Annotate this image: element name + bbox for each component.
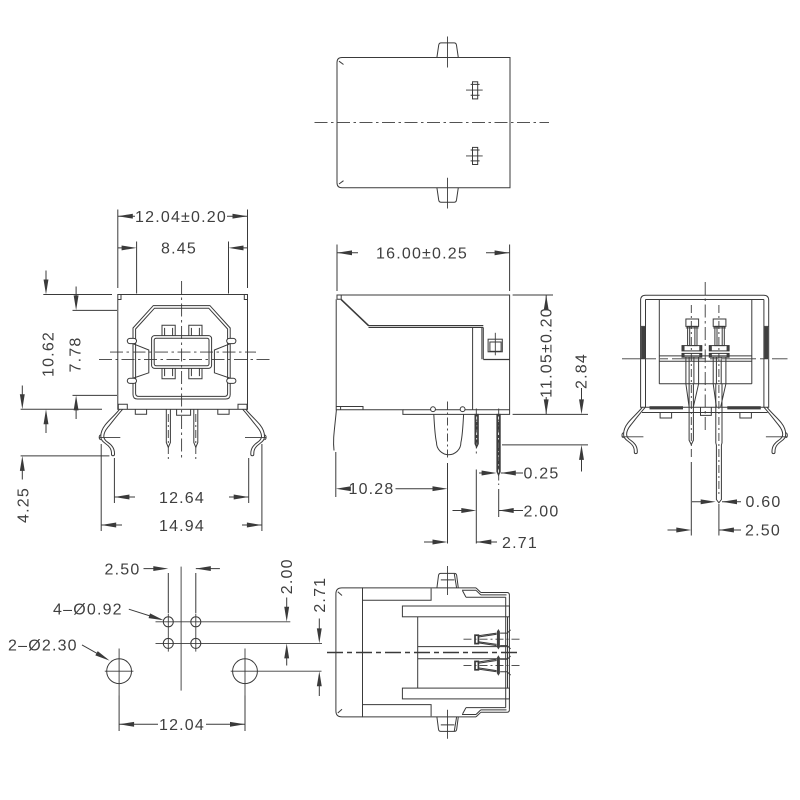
bottom flange top: [402, 606, 509, 617]
back pin A neck: [688, 326, 697, 345]
front pin 2: [194, 409, 198, 447]
dim 14.94 extension left: [100, 444, 102, 531]
dim 12.04 pcb line: [119, 723, 245, 725]
svg-text:7.78: 7.78: [68, 337, 85, 373]
svg-text:16.00±0.25: 16.00±0.25: [376, 245, 468, 262]
bottom band line bottom: [363, 705, 432, 717]
contact pad bottom-left: [162, 368, 175, 378]
side pin 1 centerline: [475, 409, 477, 457]
bottom pin 1 centerline: [464, 638, 521, 640]
dim 2.50 pcb line: [144, 568, 220, 570]
contact pad top-right: [189, 325, 202, 335]
dim 16.00±0.25 line: [337, 252, 510, 254]
dim 0.60 arrows: [692, 499, 741, 504]
bottom tab top centerline: [447, 566, 449, 595]
bottom pin 2 flare: [507, 656, 510, 675]
dim 8.45 arrows: [118, 245, 248, 250]
svg-text:12.04: 12.04: [159, 717, 205, 734]
back tongue line upper: [659, 355, 752, 357]
svg-text:4–Ø0.92: 4–Ø0.92: [53, 602, 123, 619]
spring arm left: [133, 344, 149, 378]
side U-tab centerline: [447, 402, 449, 460]
front horizontal centerline upper: [110, 351, 256, 353]
back foot tab left: [660, 413, 672, 419]
pcb big hole right crosshair: [231, 649, 322, 696]
pcb big hole left crosshair: [105, 649, 134, 696]
svg-text:2.71: 2.71: [312, 577, 329, 613]
dim 12.64 extension right: [248, 458, 250, 503]
front left leg tick: [99, 437, 120, 439]
dim 8.45 extension left: [136, 242, 138, 294]
pcb small hole 4: [191, 638, 201, 648]
dim 2.84 reference bottom: [502, 444, 588, 446]
side pcb peg outer: [488, 339, 502, 352]
bottom bezel tick TL: [338, 592, 342, 596]
side pin 2 inner light dashes: [498, 417, 500, 474]
back pin A stem: [686, 357, 699, 384]
side rivet 2: [460, 407, 465, 412]
contact pad top-left: [162, 325, 175, 335]
back pin B collar 1: [709, 346, 729, 351]
top view horizontal centerline: [315, 122, 550, 124]
dim 12.64 extension left: [113, 458, 115, 503]
bottom pin 2 tip: [475, 661, 478, 669]
latch window 2: [471, 147, 480, 164]
svg-text:12.04±0.20: 12.04±0.20: [135, 209, 227, 226]
side pin 1: [475, 414, 478, 447]
back right leg tick: [766, 436, 788, 438]
back inner wall left: [645, 300, 647, 408]
latch bump right-top: [227, 338, 236, 343]
back center pin block: [701, 407, 712, 415]
side solder U-tab: [434, 414, 464, 454]
bottom horizontal centerline: [327, 652, 520, 654]
bottom top edge: [363, 587, 477, 589]
svg-text:2.00: 2.00: [524, 503, 560, 520]
back base section fill left: [650, 406, 684, 409]
pcb row line 2: [156, 642, 323, 644]
back view pins: [682, 305, 729, 503]
bottom inner back wall: [507, 617, 509, 688]
front right leg: [243, 409, 266, 455]
pcb small hole 3: [163, 638, 173, 648]
side pin 1 inner light dashes: [476, 417, 478, 446]
back pin B collar 2: [709, 353, 729, 357]
back pin B taper: [713, 384, 726, 407]
dim 10.28 extension left: [335, 452, 337, 497]
back base line: [642, 412, 768, 414]
bottom pin 2 cone: [478, 659, 496, 672]
dim 0.25 arrows: [479, 471, 523, 476]
side step: [483, 359, 509, 361]
latch bump left-bottom: [127, 378, 136, 383]
side base plate top line: [403, 409, 510, 411]
pcb small hole column line 1: [167, 614, 169, 652]
side lip notch: [340, 407, 342, 410]
front view body square: [118, 295, 248, 410]
pcb small hole 1: [163, 617, 173, 627]
front foot tab 2: [218, 409, 229, 414]
bottom seam bottom fold: [462, 708, 507, 717]
bottom cavity wall: [417, 617, 419, 688]
bottom tab top inner fold: [441, 574, 457, 588]
bottom solder tab bottom: [437, 717, 458, 732]
top view mounting tab (top): [437, 43, 458, 58]
dim 8.45 extension right: [228, 242, 230, 294]
back horizontal centerline: [622, 358, 788, 360]
svg-text:0.25: 0.25: [524, 466, 560, 483]
back flange tick left: [641, 325, 646, 327]
svg-text:2.71: 2.71: [502, 535, 538, 552]
front bottom lip right: [238, 404, 247, 409]
side pin 2 centerline: [498, 409, 500, 486]
dim 4.25 reference bottom: [21, 455, 110, 457]
svg-text:2.50: 2.50: [745, 522, 781, 539]
pcb big hole ext right: [244, 696, 246, 732]
dim 2.00 extension pin1: [475, 470, 477, 544]
back pin A centerline: [690, 305, 692, 460]
front center pin block: [177, 409, 191, 415]
svg-text:0.60: 0.60: [746, 494, 782, 511]
dim 4.25 arrows: [20, 386, 25, 480]
dim 7.78 reference top: [73, 309, 118, 311]
spring arm right: [214, 344, 230, 378]
top view mounting tab (bottom): [437, 188, 458, 203]
side back wall line 1: [472, 328, 474, 410]
bottom tongue edge upper: [418, 646, 508, 648]
svg-text:11.05±0.20: 11.05±0.20: [539, 307, 556, 398]
tongue outer: [152, 336, 212, 369]
bottom pin 2 collar: [497, 655, 500, 676]
front right leg tick: [245, 437, 266, 439]
back left leg: [622, 407, 645, 453]
dim 0.60 extension pinB: [718, 504, 720, 536]
pcb small hole column line 2: [195, 614, 197, 652]
label 4-Ø0.92 leader: [129, 609, 161, 619]
side back wall line 2: [482, 328, 483, 360]
back foot tab right: [740, 413, 752, 419]
pcb big hole ext left: [118, 696, 120, 732]
back pin B cap: [713, 319, 726, 326]
dim 2.84 arrows: [579, 388, 584, 472]
dim 12.04±0.20 extension right: [247, 210, 249, 289]
dim 2.71 arrows: [424, 540, 497, 545]
dim 2.00 arrows: [453, 508, 524, 513]
svg-text:10.28: 10.28: [348, 481, 394, 498]
back cavity right wall: [751, 300, 753, 384]
bottom right corner arcs: [507, 593, 509, 713]
bottom pin 1 flare: [507, 630, 510, 649]
back right leg: [764, 407, 787, 453]
back pin B centerline: [718, 305, 720, 497]
top view body: [337, 58, 510, 188]
dim 10.28 line: [396, 488, 435, 490]
side left leg profile: [334, 410, 337, 451]
shield shell inner: [136, 308, 228, 396]
label 2-Ø2.30 leader: [82, 645, 107, 659]
back inner top edge: [646, 299, 764, 301]
bottom pin 2 centerline: [464, 665, 521, 667]
top tab centerline: [447, 37, 449, 68]
back pin A collar 2: [682, 353, 702, 357]
latch window 1 centerline: [466, 89, 483, 91]
pcb big hole left: [107, 659, 132, 684]
pcb big hole right: [233, 659, 258, 684]
front vertical centerline: [181, 281, 183, 461]
back pin A collar 1: [682, 346, 702, 351]
bottom pin 1 tip: [475, 635, 478, 643]
latch bump right-bottom: [227, 378, 236, 383]
side bottom lip: [336, 407, 363, 410]
bottom pin 1 cone: [478, 633, 496, 646]
front pin 1 centerline: [167, 414, 169, 460]
back cavity bottom: [659, 383, 752, 385]
svg-text:8.45: 8.45: [161, 241, 197, 258]
svg-text:2.00: 2.00: [279, 558, 296, 594]
top view corner tick BL: [339, 181, 344, 184]
bottom seam top fold: [462, 588, 507, 597]
front corner notch TR: [244, 295, 247, 300]
bottom right edge: [506, 595, 510, 710]
back base section fill right: [727, 406, 761, 409]
front foot tab 1: [135, 409, 146, 414]
svg-text:12.64: 12.64: [159, 490, 205, 507]
svg-text:10.62: 10.62: [41, 331, 58, 377]
front left leg: [99, 409, 122, 455]
back vertical centerline: [704, 282, 706, 433]
back pin A cap lower line: [686, 327, 699, 329]
front pin 2 centerline: [195, 414, 197, 460]
shield shell outer: [133, 306, 230, 399]
bottom tab bottom centerline: [447, 710, 449, 739]
dim 2.71 pcb arrows: [317, 619, 322, 697]
svg-text:14.94: 14.94: [159, 518, 205, 535]
dim 2.00 extension pin2: [498, 489, 500, 517]
bottom pin 2 box: [500, 659, 507, 672]
svg-text:2.50: 2.50: [105, 561, 141, 578]
side pcb peg inner: [490, 342, 501, 351]
bottom tongue edge lower: [418, 658, 508, 660]
dim 11.05±0.20 extension top: [513, 294, 553, 296]
back tongue line lower: [659, 360, 752, 362]
latch window 1: [471, 82, 480, 99]
svg-text:2–Ø2.30: 2–Ø2.30: [8, 637, 78, 654]
bottom flange bottom: [402, 688, 509, 699]
svg-text:4.25: 4.25: [16, 487, 33, 523]
dim 2.00 pcb arrows: [284, 598, 289, 666]
dim 11.05±0.20 line: [545, 295, 547, 414]
back pin B neck: [715, 326, 724, 345]
pcb dim 2.50 ext lines: [168, 573, 196, 613]
dim 16.00±0.25 extension right: [509, 245, 511, 292]
dim 2.50 arrows: [668, 528, 742, 533]
tongue inner: [154, 338, 209, 366]
front pin 1: [166, 409, 170, 447]
dim 2.71 extension tab: [447, 463, 449, 544]
contact pad bottom-right: [189, 368, 202, 378]
latch window 2 centerline: [466, 155, 483, 157]
dim 10.62 extension top: [43, 294, 112, 296]
back flange tick right: [764, 325, 769, 327]
back pin B cap lower line: [713, 327, 726, 329]
dim 12.04±0.20 extension left: [117, 210, 119, 289]
bottom bezel: [336, 588, 363, 717]
bottom band line top: [363, 589, 432, 601]
dim 12.64 line: [114, 496, 248, 498]
dim 14.94 extension right: [261, 444, 263, 531]
dim 12.04±0.20 line: [118, 215, 248, 217]
bottom tab bottom inner fold: [441, 717, 457, 731]
dim 10.62 arrows: [44, 271, 49, 434]
side shield top edge double: [368, 326, 483, 328]
svg-text:2.84: 2.84: [574, 353, 591, 389]
bottom solder tab top: [437, 573, 458, 588]
dim 7.78 reference bottom: [73, 394, 118, 396]
back left leg tick: [622, 436, 644, 438]
dim 16.00±0.25 extension left: [336, 245, 338, 292]
back pin A cap: [686, 319, 699, 326]
back pin A tail: [689, 384, 693, 445]
bottom bezel tick BL: [338, 709, 342, 713]
back pin B tail: [716, 384, 722, 503]
back pin B stem: [713, 357, 726, 384]
dim 11.05±0.20 extension bottom: [513, 413, 588, 415]
back left wall section fill: [641, 327, 645, 359]
front bottom lip left: [118, 404, 127, 409]
side pin 2: [497, 414, 500, 475]
pcb center vertical line: [180, 567, 182, 691]
side view outline: [336, 295, 509, 414]
dim 14.94 line: [101, 524, 262, 526]
dim 10.62 extension bottom: [21, 408, 102, 410]
front horizontal centerline lower: [99, 359, 272, 361]
dim 7.78 arrows: [74, 287, 79, 420]
back body outline: [641, 295, 769, 407]
side chamfer outer: [341, 300, 368, 326]
back right wall section fill: [764, 327, 768, 359]
back pin A taper: [686, 384, 699, 407]
dim 2.50 extension pinA: [690, 462, 692, 536]
bottom pin 1 collar: [497, 629, 500, 650]
bottom pin 1 box: [500, 633, 507, 646]
latch bump left-top: [127, 338, 136, 343]
back cavity left wall: [658, 300, 660, 384]
pcb small hole 2: [191, 617, 201, 627]
back inner wall right: [763, 300, 765, 408]
bottom bottom edge: [363, 716, 477, 718]
side rivet 1: [431, 407, 436, 412]
top view corner tick TL: [339, 61, 344, 64]
bottom tab centerline: [447, 178, 449, 209]
side pcb peg centerline: [494, 333, 496, 356]
front corner notch TL: [118, 295, 121, 300]
pcb row line 1: [156, 621, 291, 623]
